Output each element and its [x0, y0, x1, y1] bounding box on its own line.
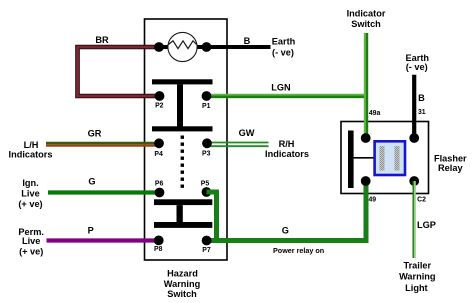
wire B earth relay [412, 75, 416, 138]
terminal P8 [154, 236, 164, 254]
svg-text:(+ ve): (+ ve) [19, 247, 43, 257]
terminal dot lamp right [202, 42, 212, 52]
svg-text:Switch: Switch [167, 289, 197, 299]
label L/H Indicators [9, 140, 53, 160]
terminal P7 [202, 236, 212, 254]
flasher relay box [341, 122, 429, 194]
svg-text:P7: P7 [202, 247, 211, 254]
wire GR [46, 143, 159, 146]
svg-text:Live: Live [21, 188, 39, 198]
hazard warning switch box [145, 19, 228, 260]
svg-text:49a: 49a [369, 110, 381, 117]
svg-text:Hazard: Hazard [167, 268, 198, 278]
svg-text:P2: P2 [155, 102, 164, 109]
label Perm. Live (+ ve) [18, 227, 44, 257]
svg-text:49: 49 [368, 197, 376, 204]
label Flasher Relay [434, 153, 467, 173]
terminal 31 [409, 109, 425, 143]
relay armature link [354, 157, 375, 159]
terminal C2 [409, 176, 426, 204]
svg-text:P5: P5 [201, 180, 210, 187]
terminal dot lamp left [154, 42, 164, 52]
terminal P2 [155, 91, 165, 109]
terminal P6 [155, 180, 165, 197]
svg-text:L/H: L/H [24, 140, 39, 150]
wire LGP [413, 181, 414, 258]
relay contact bar [348, 131, 354, 189]
svg-text:Warning: Warning [164, 279, 200, 289]
wire LGN [207, 94, 369, 99]
svg-text:Flasher: Flasher [434, 153, 467, 163]
svg-text:Warning: Warning [399, 272, 435, 282]
contact bar I-beam upper [152, 79, 213, 131]
label Ign. Live (+ ve) [18, 178, 42, 209]
terminal P3 [202, 138, 212, 157]
svg-text:LGP: LGP [417, 220, 436, 230]
svg-text:GR: GR [88, 129, 102, 139]
svg-text:Live: Live [22, 236, 40, 246]
svg-text:B: B [418, 93, 425, 103]
svg-text:Relay: Relay [438, 163, 463, 173]
relay coil [375, 141, 405, 175]
wire indicator switch (green vertical) [366, 33, 367, 138]
svg-text:BR: BR [95, 35, 109, 45]
svg-text:G: G [282, 226, 289, 236]
wire BR loop [78, 47, 160, 96]
wire GW [207, 143, 269, 147]
wire G ign live [48, 190, 160, 194]
terminal P1 [202, 91, 212, 110]
svg-text:Indicator: Indicator [347, 9, 386, 19]
svg-text:Switch: Switch [351, 19, 381, 29]
svg-text:C2: C2 [417, 197, 426, 204]
svg-text:Earth: Earth [272, 37, 296, 47]
label Hazard Warning Switch [164, 268, 200, 298]
svg-text:P3: P3 [202, 151, 211, 158]
svg-text:Indicators: Indicators [9, 150, 53, 160]
label Earth (- ve) right [406, 53, 430, 72]
svg-text:Trailer: Trailer [404, 261, 432, 271]
svg-text:(+ ve): (+ ve) [18, 199, 42, 209]
svg-text:31: 31 [418, 109, 426, 116]
wire G power relay path P5 to relay 49 [207, 181, 367, 241]
label R/H Indicators [265, 139, 309, 159]
svg-text:R/H: R/H [279, 139, 295, 149]
lamp [168, 32, 197, 61]
svg-text:P: P [88, 225, 94, 235]
label Indicator Switch [347, 9, 386, 29]
svg-text:P4: P4 [154, 151, 163, 158]
svg-text:P1: P1 [202, 103, 211, 110]
svg-text:B: B [244, 36, 251, 46]
svg-text:Power relay on: Power relay on [273, 246, 324, 255]
terminal 49a [361, 110, 381, 143]
contact bar I-beam lower [154, 199, 212, 228]
label Trailer Warning Light [399, 261, 435, 293]
svg-text:P6: P6 [155, 180, 164, 187]
dotted line switch linkage [181, 136, 184, 191]
svg-text:(- ve): (- ve) [406, 62, 428, 72]
label Earth (- ve) [272, 37, 296, 58]
svg-text:P8: P8 [154, 246, 163, 253]
svg-text:G: G [88, 176, 95, 186]
svg-text:Indicators: Indicators [265, 149, 309, 159]
wire P perm live [47, 238, 159, 242]
terminal P4 [154, 138, 164, 158]
terminal 49 [361, 176, 376, 203]
svg-text:(- ve): (- ve) [272, 48, 294, 58]
wire B earth (from lamp to right) [163, 45, 271, 49]
svg-text:Ign.: Ign. [22, 178, 38, 188]
svg-text:GW: GW [239, 128, 255, 138]
terminal P5 [201, 180, 212, 197]
svg-text:Light: Light [405, 283, 427, 293]
svg-text:LGN: LGN [271, 83, 291, 93]
